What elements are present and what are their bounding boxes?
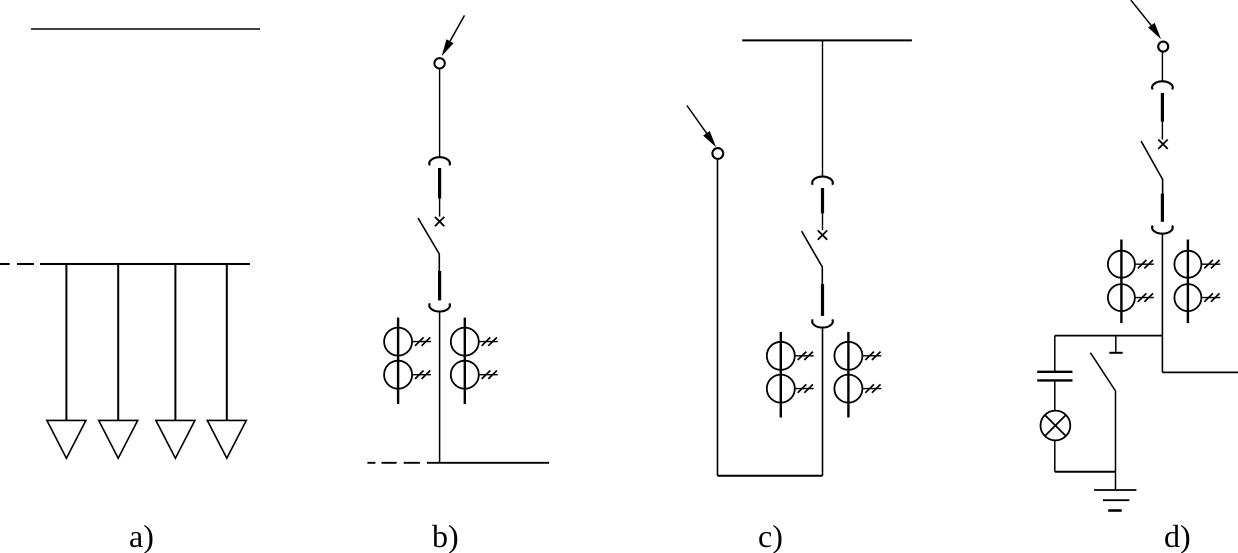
circuit breaker cross QF (c)	[818, 230, 827, 239]
outgoing feeder arrow 1 (a)	[47, 420, 86, 458]
current transformer TA1 winding circles (c left)	[767, 342, 795, 370]
TA1 secondary lead with double slash (b left upper)	[412, 341, 431, 343]
breaker upper stab (c)	[821, 188, 824, 213]
feeder wire 3 (a)	[174, 264, 176, 420]
svg-text:b): b)	[432, 518, 459, 553]
earthing switch blade QS (d)	[1090, 353, 1115, 472]
bottom wire lamp branch to earth (d)	[1055, 471, 1116, 473]
circuit breaker blade QF (b)	[418, 218, 439, 271]
TA2 secondary lead with double slash (c right upper)	[862, 355, 881, 357]
cable riser wire (c)	[717, 160, 719, 476]
current transformer TA2 primary line (d right)	[1187, 240, 1189, 324]
svg-text:c): c)	[758, 518, 783, 553]
upper withdrawable contact arc (b)	[429, 157, 450, 165]
lower withdrawable contact arc (c)	[812, 319, 833, 327]
earthing switch fixed contact bar (d)	[1109, 352, 1122, 354]
feeder wire 4 (a)	[226, 264, 228, 420]
wire stab to breaker (d)	[1161, 122, 1163, 140]
circuit breaker cross QF (d)	[1158, 140, 1167, 149]
outgoing feeder arrow 2 (a)	[99, 420, 138, 458]
lower withdrawable contact arc (d)	[1152, 226, 1173, 234]
breaker lower stab (c)	[821, 284, 824, 316]
wire circle to upper contact (d)	[1161, 52, 1163, 81]
TA1 secondary lead with double slash (b left lower)	[412, 374, 431, 376]
current transformer TA1 winding circles (b left)	[384, 328, 412, 356]
current transformer TA2 winding circles (b right)	[451, 328, 479, 356]
current transformer TA1 winding circles (d left)	[1108, 251, 1135, 278]
wire circle to upper contact (b)	[439, 69, 441, 158]
upper withdrawable contact arc (c)	[812, 177, 833, 185]
cable termination circle (d)	[1158, 42, 1168, 52]
feeder wire 2 (a)	[117, 264, 119, 420]
feeder wire 1 (a)	[65, 264, 67, 420]
incoming cable arrow (b)	[446, 15, 465, 48]
wire busbar to upper contact (c)	[822, 40, 824, 176]
svg-text:a): a)	[129, 518, 154, 553]
capacitor C lower plate (d)	[1037, 379, 1072, 381]
signal lamp HL cross (d)	[1045, 415, 1066, 436]
cable termination circle (b)	[434, 58, 444, 68]
incoming supply line (a)	[31, 28, 260, 30]
current transformer TA2 winding circles (d right)	[1174, 251, 1201, 278]
signal lamp HL circle (d)	[1041, 411, 1071, 441]
current transformer TA1 primary line (b left)	[397, 318, 399, 404]
current transformer TA2 primary line (b right)	[464, 318, 466, 404]
junction wire to voltage indicator branch (d)	[1055, 335, 1163, 337]
current transformer TA2 primary line (c right)	[847, 332, 849, 418]
lower withdrawable contact arc (b)	[429, 303, 450, 311]
TA2 secondary lead with double slash (b right lower)	[479, 374, 498, 376]
busbar with dashed continuation (a)	[0, 263, 250, 265]
breaker upper stab (d)	[1161, 93, 1164, 122]
TA1 secondary lead with double slash (c left upper)	[795, 355, 814, 357]
TA2 secondary lead with double slash (c right lower)	[862, 388, 881, 390]
svg-text:d): d)	[1164, 518, 1191, 553]
TA1 secondary lead with double slash (c left lower)	[795, 388, 814, 390]
capacitor C upper plate (d)	[1037, 371, 1072, 373]
wire breaker to junction (d)	[1161, 234, 1163, 373]
wire to ground (d)	[1115, 472, 1117, 490]
outgoing feeder wire right (d)	[1162, 371, 1238, 373]
breaker lower stab (b)	[438, 271, 441, 300]
current transformer TA1 primary line (d left)	[1120, 240, 1122, 324]
breaker lower stab (d)	[1161, 194, 1164, 222]
wire capacitor to lamp (d)	[1054, 380, 1056, 410]
busbar (c)	[742, 39, 912, 41]
TA1 secondary lead with double slash (d left lower)	[1135, 297, 1154, 299]
current transformer TA1 primary line (c left)	[780, 332, 782, 418]
breaker upper stab (b)	[438, 168, 441, 199]
upper withdrawable contact arc (d)	[1152, 81, 1173, 89]
TA2 secondary lead with double slash (d right lower)	[1201, 297, 1220, 299]
wire junction to capacitor (d)	[1054, 336, 1056, 371]
bottom wire to cable riser (c)	[718, 475, 823, 477]
outgoing feeder arrow 4 (a)	[207, 420, 246, 458]
wire stab to breaker (b)	[439, 199, 441, 217]
outgoing feeder arrow 3 (a)	[156, 420, 195, 458]
incoming cable arrow (d)	[1131, 0, 1153, 27]
earthing switch fixed contact stub (d)	[1115, 336, 1117, 352]
wire stab to breaker (c)	[822, 213, 824, 230]
cable termination circle (c)	[712, 148, 723, 159]
wire breaker to cable (c)	[822, 328, 824, 476]
circuit breaker blade QF (c)	[802, 231, 823, 284]
circuit breaker cross QF (b)	[435, 217, 444, 226]
busbar with dashed continuation (b)	[367, 462, 549, 464]
TA2 secondary lead with double slash (b right upper)	[479, 341, 498, 343]
outgoing cable arrow (c)	[687, 106, 708, 135]
TA1 secondary lead with double slash (d left upper)	[1135, 263, 1154, 265]
circuit breaker blade QF (d)	[1141, 141, 1163, 194]
wire breaker to busbar (b)	[439, 312, 441, 463]
ground symbol (d)	[1094, 489, 1136, 491]
wire lamp to bottom wire (d)	[1054, 440, 1056, 471]
current transformer TA2 winding circles (c right)	[834, 342, 862, 370]
TA2 secondary lead with double slash (d right upper)	[1201, 263, 1220, 265]
